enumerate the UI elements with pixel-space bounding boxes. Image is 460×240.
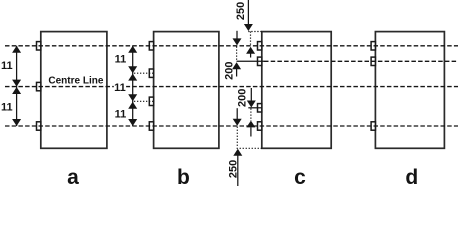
arrow down at L2 far-left — [12, 80, 21, 87]
extension dotted line at plate c top edge — [248, 31, 261, 33]
plate c hole tab 4 — [258, 122, 262, 130]
extension line L5 (third hole line of plate c) — [248, 107, 261, 109]
250 top arrow down at plate c top edge level — [244, 24, 253, 31]
plate c hole tab 1 — [258, 42, 262, 50]
200 upper arrow tail — [236, 69, 238, 77]
centre line L1 (top hole line) — [5, 45, 458, 47]
dotted connector L1 to L4 — [236, 47, 238, 61]
200 upper arrow up below L4 — [232, 62, 241, 69]
dotted connector from top edge level to L1 — [250, 32, 252, 46]
centre line L3 (bottom hole line) — [5, 125, 458, 127]
arrow up below L1 right side — [246, 47, 255, 54]
svg-text:a: a — [67, 166, 79, 186]
extension line L4 solid segment — [237, 60, 265, 62]
plate d hole tab 2 — [371, 57, 375, 65]
plate b hole tab 2 — [149, 69, 153, 77]
dimension text 11 chain middle (on centre line) — [114, 82, 126, 94]
svg-text:11: 11 — [1, 60, 13, 72]
svg-text:c: c — [294, 166, 306, 186]
svg-text:11: 11 — [114, 82, 126, 94]
200 upper leader line — [236, 31, 238, 39]
200 lower leader line — [236, 108, 238, 119]
tail below L3 right side — [250, 127, 252, 136]
centre line L2 (main Centre Line) — [5, 86, 458, 88]
plate c body — [262, 32, 331, 149]
svg-text:11: 11 — [1, 101, 13, 113]
dotted stub at plate b hole line 2 — [134, 72, 154, 74]
svg-text:200: 200 — [237, 89, 249, 107]
plate d hole tab 1 — [371, 42, 375, 50]
dotted connector L3 to bottom edge level — [236, 127, 238, 147]
250 bottom arrow up at bottom edge level — [233, 149, 242, 156]
arrow down at 101.3 chain — [128, 94, 137, 101]
plate a body — [41, 32, 107, 149]
arrow up at 101.7 chain — [128, 102, 137, 109]
arrow up at L1 far-left — [12, 46, 21, 53]
svg-text:250: 250 — [227, 160, 239, 178]
200 upper arrow down at L1 — [233, 38, 242, 45]
svg-text:d: d — [405, 166, 418, 186]
arrow down at L3 chain — [128, 119, 137, 126]
plate b body — [154, 32, 219, 149]
extension dotted line at plate c bottom edge — [237, 147, 262, 149]
svg-text:11: 11 — [115, 108, 127, 120]
arrow down at 73.2 chain — [128, 66, 137, 73]
svg-text:Centre Line: Centre Line — [48, 76, 103, 87]
svg-text:250: 250 — [235, 2, 247, 20]
tail below arrow — [250, 53, 252, 57]
plate b hole tab 1 — [149, 42, 153, 50]
200 lower arrow down at L3 — [233, 119, 242, 126]
centre line L4 (second hole line of plates c and d) — [264, 60, 458, 62]
plate a hole tab 1 — [37, 42, 41, 50]
200 middle dimension line — [250, 88, 252, 104]
svg-text:b: b — [177, 166, 190, 186]
plate d body — [375, 32, 444, 149]
200 middle arrow down at L5 — [247, 101, 256, 108]
plate b hole tab 3 — [149, 97, 153, 105]
250 bottom leader line — [237, 155, 239, 186]
plate a hole tab 3 — [37, 122, 41, 130]
arrow up at L2 far-left — [12, 87, 21, 94]
arrow up at 73.6 chain — [128, 74, 137, 81]
plate d hole tab 3 — [371, 122, 375, 130]
arrow up at L3 right side — [246, 121, 255, 128]
plate c hole tab 3 — [258, 104, 262, 112]
svg-text:11: 11 — [115, 54, 127, 66]
plate a hole tab 2 — [37, 82, 41, 90]
plate b hole tab 4 — [149, 122, 153, 130]
arrow down at L3 far-left — [12, 119, 21, 126]
250 top dimension leader line — [247, 0, 249, 25]
dotted connector L5 to L3 — [250, 109, 252, 122]
svg-text:200: 200 — [223, 62, 235, 80]
dotted stub at plate b hole line 3 — [134, 100, 154, 102]
plate c hole tab 2 — [258, 57, 262, 65]
far-left dimension line — [16, 46, 18, 126]
arrow up at L1 chain — [128, 46, 137, 53]
chain dimension line between a and b — [132, 46, 134, 126]
